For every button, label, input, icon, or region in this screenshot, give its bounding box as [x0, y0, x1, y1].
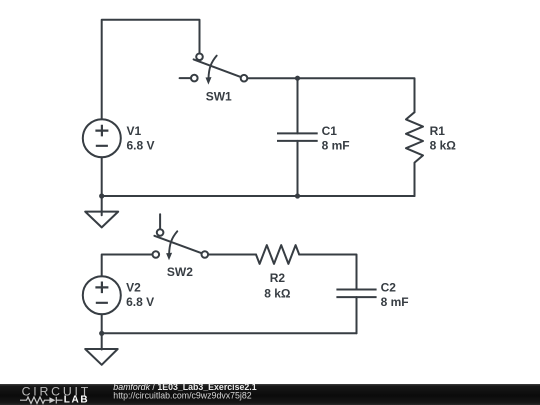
svg-text:V1: V1 — [127, 124, 142, 138]
svg-text:6.8 V: 6.8 V — [127, 139, 155, 153]
svg-text:LAB: LAB — [64, 394, 90, 405]
svg-text:8 kΩ: 8 kΩ — [264, 287, 291, 301]
svg-text:C1: C1 — [322, 124, 338, 138]
svg-text:8 mF: 8 mF — [322, 139, 350, 153]
svg-text:R1: R1 — [430, 124, 446, 138]
svg-text:http://circuitlab.com/c9wz9dvx: http://circuitlab.com/c9wz9dvx75j82 — [113, 391, 251, 401]
svg-text:SW2: SW2 — [167, 265, 193, 279]
svg-text:6.8 V: 6.8 V — [126, 295, 154, 309]
svg-text:8 kΩ: 8 kΩ — [430, 139, 457, 153]
svg-text:8 mF: 8 mF — [381, 295, 409, 309]
svg-text:SW1: SW1 — [206, 89, 232, 103]
svg-text:R2: R2 — [270, 271, 286, 285]
svg-text:V2: V2 — [126, 280, 141, 294]
svg-text:C2: C2 — [381, 280, 397, 294]
